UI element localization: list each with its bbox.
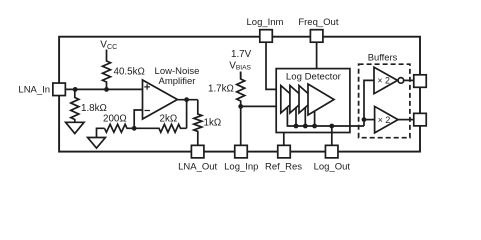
wire detector tap 3 — [304, 108, 306, 127]
svg-text:2kΩ: 2kΩ — [160, 113, 178, 124]
svg-text:200Ω: 200Ω — [103, 113, 127, 124]
resistor 200 — [105, 124, 135, 132]
pin top right (Log_Outm) — [414, 75, 427, 88]
wire Freq_Out pin down to log detector box — [316, 42, 318, 68]
wire op-amp output — [177, 99, 197, 101]
wire 2k to op-amp output — [186, 100, 188, 129]
wire bottom buffer to pin — [398, 119, 414, 121]
svg-text:× 2: × 2 — [377, 76, 390, 86]
wire LNA_In to op-amp + input — [65, 88, 143, 90]
gain stage triangle 2 — [290, 86, 306, 114]
svg-text:Amplifier: Amplifier — [159, 76, 196, 87]
op-amp - sign — [145, 110, 151, 112]
wire junction to op-amp - input — [134, 110, 142, 128]
pin bottom right (Log_Outp) — [414, 113, 427, 126]
node junction dot log out branch — [329, 124, 334, 129]
node junction dot bias — [238, 104, 243, 109]
buffer triangle top (x2) — [374, 67, 398, 94]
pin LNA_Out — [191, 145, 204, 158]
op-amp U1 low-noise amplifier — [143, 80, 178, 119]
wire to bottom buffer input — [364, 119, 375, 121]
svg-text:Log Detector: Log Detector — [286, 71, 342, 82]
ground (below 1.8k) — [66, 122, 84, 133]
pin Log_Inp — [235, 145, 248, 158]
svg-text:Log_Out: Log_Out — [314, 161, 351, 172]
svg-text:Ref_Res: Ref_Res — [265, 161, 302, 172]
log detector box — [276, 69, 350, 133]
ground (below 200 ohm) — [88, 138, 106, 149]
node junction dot feedback — [132, 126, 137, 131]
wire bias node to Log_Inp pin — [240, 106, 242, 145]
wire Log_Inm pin down and into log detector — [266, 42, 281, 89]
resistor 2k — [134, 124, 186, 132]
svg-text:LNA_Out: LNA_Out — [178, 161, 217, 172]
gain stage triangle 1 — [281, 86, 297, 114]
op-amp + sign — [144, 84, 150, 90]
svg-text:VCC: VCC — [100, 40, 117, 52]
svg-text:VBIAS: VBIAS — [229, 60, 251, 71]
svg-text:40.5kΩ: 40.5kΩ — [114, 67, 145, 78]
inverter bubble — [398, 78, 404, 84]
node junction dot buffers branch — [362, 117, 367, 122]
wire summing node to Log_Out pin — [331, 126, 333, 145]
node junction dot tap 3 — [303, 124, 308, 129]
svg-text:Log_Inm: Log_Inm — [247, 17, 284, 28]
wire detector tap 4 — [314, 111, 316, 126]
chip boundary box — [59, 37, 420, 152]
node junction dot at 40.5k branch — [104, 87, 109, 92]
svg-text:Buffers: Buffers — [368, 52, 398, 63]
pin LNA_In — [53, 83, 66, 96]
pin Ref_Res — [278, 145, 291, 158]
pin Freq_Out — [310, 30, 323, 43]
wire VBIAS to 1.7k — [240, 72, 242, 80]
pin Log_Out — [325, 145, 338, 158]
node junction dot tap 2 — [294, 124, 299, 129]
resistor 1k — [194, 100, 202, 146]
svg-text:Log_Inp: Log_Inp — [224, 161, 258, 172]
wire detector tap 2 — [295, 108, 297, 126]
svg-text:1.7V: 1.7V — [231, 49, 252, 60]
svg-text:× 2: × 2 — [378, 115, 391, 125]
pin Log_Inm — [260, 30, 273, 43]
node junction dot at 1.8k branch — [73, 87, 78, 92]
buffer triangle bottom (x2) — [375, 106, 398, 132]
node junction dot op-amp output — [184, 97, 189, 102]
svg-text:LNA_In: LNA_In — [18, 85, 50, 96]
svg-text:Freq_Out: Freq_Out — [298, 17, 338, 28]
svg-text:1.7kΩ: 1.7kΩ — [208, 84, 234, 95]
gain stage triangle 3 — [299, 86, 315, 114]
resistor 40.5k (with lead from Vcc) — [103, 50, 111, 90]
wire Ref_Res pin to box — [283, 133, 285, 146]
gain stage triangle 4 (output amp) — [308, 84, 334, 115]
wire detector tap 1 — [287, 107, 364, 126]
svg-text:1kΩ: 1kΩ — [204, 117, 222, 128]
resistor 1.8k — [71, 89, 79, 122]
node junction dot tap 4 — [312, 124, 317, 129]
resistor 1.7k — [237, 72, 245, 107]
wire bias node to log detector — [241, 105, 281, 107]
wire top buffer to pin — [404, 79, 414, 81]
wire summing line jog up to buffers — [364, 80, 374, 126]
buffers dashed box — [359, 64, 410, 138]
wire 200 ohm to ground — [97, 128, 105, 137]
